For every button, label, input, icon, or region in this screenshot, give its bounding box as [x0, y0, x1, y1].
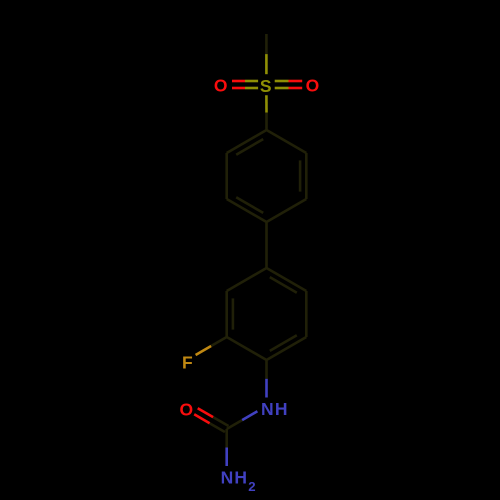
ring B bond B4-B5	[227, 337, 267, 360]
ring A bond C1-C2	[267, 130, 307, 153]
bond B5-F	[211, 337, 227, 346]
bond NH-C carbonyl	[242, 411, 257, 420]
bond CH3-S	[265, 34, 268, 54]
ring A bond C2-C3	[305, 153, 308, 199]
svg-text:S: S	[260, 76, 273, 96]
ring A bond C4-C5	[227, 199, 267, 222]
svg-text:NH: NH	[261, 399, 289, 419]
ring B bond B5-B6	[225, 291, 228, 337]
svg-text:O: O	[306, 76, 321, 96]
ring B bond B1-B2	[267, 268, 307, 291]
bond S-C1	[265, 95, 268, 112]
double bond S=O left	[245, 80, 258, 83]
ring B bond B3-B4	[267, 337, 307, 360]
double bond C=O urea	[213, 417, 228, 426]
bond B4-NH	[265, 360, 268, 379]
ring A bond C5-C6	[225, 153, 228, 199]
double bond S=O right	[275, 87, 289, 90]
ring B bond B6-B1	[227, 268, 267, 291]
svg-text:F: F	[182, 353, 194, 373]
bond C-NH2	[225, 429, 228, 448]
ring A bond C6-C1	[227, 130, 267, 153]
ring A bond C3-C4	[267, 199, 307, 222]
ring B bond B2-B3	[305, 291, 308, 337]
svg-text:O: O	[179, 399, 194, 419]
biphenyl bond C4-B1	[265, 222, 268, 268]
svg-text:O: O	[214, 76, 229, 96]
